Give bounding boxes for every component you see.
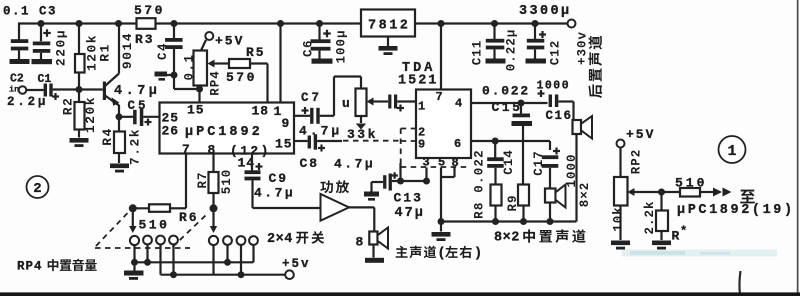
label 功放	[320, 180, 349, 193]
wire contact b2 down	[226, 245, 228, 262]
svg-text:+5V: +5V	[215, 34, 244, 49]
svg-text:2.2μ: 2.2μ	[7, 95, 48, 109]
transistor Q1 9014	[79, 88, 103, 90]
label C14	[502, 149, 516, 175]
label 0.1 C4 value	[183, 53, 197, 80]
label 100u	[335, 29, 349, 63]
wire contact b3 down	[240, 245, 242, 275]
node emitter	[116, 113, 123, 120]
dashed stub pin2	[401, 128, 416, 130]
label R7	[196, 171, 210, 188]
resistor R9	[522, 141, 524, 185]
wire top rail R3 to 7812	[156, 22, 362, 24]
svg-text:+5v: +5v	[282, 257, 311, 271]
wire contact b1 down	[212, 245, 214, 275]
svg-text:8×2: 8×2	[578, 182, 592, 208]
capacitor C13 47u	[370, 182, 372, 192]
svg-text:1: 1	[418, 100, 425, 114]
pin5 stub	[440, 168, 442, 222]
regulator U2 7812	[361, 10, 415, 37]
svg-text:18: 18	[252, 104, 270, 119]
wire C9 to amp input	[253, 207, 321, 209]
arrow to uPC1892 pin19	[713, 188, 722, 197]
svg-text:33k: 33k	[347, 127, 378, 142]
capacitor C6 100u	[318, 24, 320, 40]
node pin3	[423, 178, 430, 185]
capacitor C7 4.7u	[294, 115, 310, 117]
terminal +5v bottom	[285, 270, 294, 279]
node pin6-R8	[492, 138, 499, 145]
ground C4	[155, 72, 168, 77]
svg-text:9: 9	[418, 138, 425, 152]
capacitor C12 electrolytic	[534, 24, 536, 40]
label R9	[506, 194, 520, 211]
marker circled 2	[27, 176, 49, 198]
wire C13 to pin3	[401, 180, 427, 182]
svg-text:R7: R7	[196, 171, 210, 188]
svg-text:4.7μ: 4.7μ	[299, 124, 342, 139]
label C11	[471, 40, 485, 66]
svg-text:C2: C2	[10, 73, 24, 86]
label C4	[156, 42, 170, 60]
ground R2	[70, 138, 89, 143]
svg-text:0.1 C3: 0.1 C3	[3, 5, 57, 19]
wire bus A	[135, 261, 254, 263]
node a2 bus	[144, 259, 151, 266]
label RP2	[630, 149, 644, 175]
svg-text:8: 8	[356, 235, 364, 250]
svg-text:C11: C11	[471, 40, 485, 66]
svg-text:C7: C7	[301, 91, 322, 105]
node base	[76, 86, 83, 93]
op-amp U3 TDA1521 box	[416, 90, 471, 159]
capacitor C5 4.7u	[119, 116, 133, 118]
svg-text:C5: C5	[128, 99, 149, 113]
node R7 wiper	[210, 204, 218, 212]
svg-text:C13: C13	[394, 191, 423, 206]
wire pin7 down	[185, 154, 187, 209]
resistor R* 2.2k	[660, 192, 662, 211]
label 9014	[120, 32, 135, 69]
label 220u	[54, 29, 69, 66]
label C12	[549, 40, 563, 66]
svg-text:+5V: +5V	[626, 127, 655, 142]
node R6 wiper	[129, 204, 137, 212]
wire contact a2 down	[146, 244, 148, 262]
node rail-TDA-pin7	[438, 20, 445, 27]
label rear channel 后置声道	[588, 36, 602, 98]
ground switch a1	[133, 262, 135, 270]
svg-text:0.22μ: 0.22μ	[505, 29, 519, 72]
node RP2 wiper	[658, 189, 665, 196]
label 1000 C17 value	[565, 153, 579, 187]
wire bus B to +5v	[161, 274, 286, 276]
wiper RP4 arrow	[214, 62, 229, 64]
svg-text:1521: 1521	[398, 74, 438, 89]
node a4 busB	[170, 271, 177, 278]
capacitor C11 0.22u	[493, 24, 495, 40]
wire rail to TDA pin7	[440, 24, 442, 90]
switch contact a3	[156, 236, 165, 245]
capacitor C17 1000u	[549, 141, 551, 150]
switch contact b3	[237, 236, 246, 245]
label 主声道(左右)	[396, 246, 437, 259]
capacitor C3 220u electrolytic	[40, 24, 42, 42]
capacitor C15 0.022	[520, 103, 522, 114]
speaker main	[369, 232, 377, 245]
wire 510 to arrow	[700, 191, 713, 193]
label 至	[740, 190, 755, 204]
label 510 R7 value	[220, 169, 234, 195]
svg-text:2×4: 2×4	[267, 232, 293, 247]
resistor R5 570	[229, 59, 250, 68]
ground center rail	[440, 222, 442, 232]
svg-text:u: u	[342, 96, 350, 111]
label C17	[532, 150, 546, 176]
svg-text:(: (	[438, 247, 446, 262]
node rail-C11	[491, 20, 498, 27]
capacitor C9 4.7u	[251, 154, 253, 171]
svg-text:R6: R6	[179, 210, 199, 225]
svg-text:RP4: RP4	[208, 70, 222, 96]
svg-text:120k: 120k	[83, 96, 98, 133]
capacitor C4 0.1	[173, 24, 175, 39]
svg-text:570: 570	[134, 3, 165, 18]
ground C13	[364, 192, 379, 197]
svg-text:C8: C8	[300, 156, 320, 171]
svg-text:R3: R3	[135, 32, 155, 47]
svg-text:RP2: RP2	[630, 149, 644, 175]
node rail-C4	[171, 20, 178, 27]
svg-text:4.7μ: 4.7μ	[254, 186, 295, 201]
svg-text:9: 9	[282, 116, 290, 131]
wire amp out	[349, 206, 374, 208]
wire C5 to pin25	[143, 116, 159, 118]
label 8x2 speaker	[578, 182, 592, 208]
label R1	[98, 43, 113, 62]
wire contact a1 down	[133, 245, 135, 262]
ground R4	[110, 164, 129, 169]
dashed gang diagonal left	[96, 211, 130, 247]
label RP4	[208, 70, 222, 96]
svg-text:47μ: 47μ	[395, 206, 425, 221]
svg-text:C15: C15	[492, 100, 523, 115]
speaker rear channel	[573, 120, 582, 134]
svg-text:1: 1	[727, 143, 736, 160]
wire C4 node to pot node	[173, 75, 175, 89]
svg-text:C1: C1	[38, 73, 52, 86]
svg-text:R2: R2	[61, 97, 76, 116]
dashed gang diagonal right	[173, 216, 206, 248]
terminal +5V left	[205, 32, 213, 40]
potentiometer RP4	[198, 86, 200, 90]
switch wiper arrow right	[212, 193, 214, 226]
switch contact a4	[169, 236, 178, 245]
label 120k R2	[83, 96, 98, 133]
wire C4 to ground	[167, 74, 174, 76]
capacitor C10	[388, 95, 391, 109]
svg-text:4.7μ: 4.7μ	[334, 157, 375, 172]
label R8 0.022	[473, 149, 487, 219]
svg-text:7812: 7812	[368, 19, 410, 34]
node RP4 bottom	[196, 86, 203, 93]
wiper RP2 to node	[634, 191, 680, 193]
potentiometer u 33k	[356, 89, 367, 117]
terminal input	[19, 86, 27, 94]
node rail-C12	[532, 20, 539, 27]
dashed gang line horizontal	[343, 140, 401, 142]
node rail-R9	[520, 218, 527, 225]
svg-text:RP4: RP4	[17, 260, 43, 274]
wire top supply rail left segment	[18, 22, 137, 24]
wire input to C1	[26, 89, 43, 91]
capacitor C8 4.7u	[294, 140, 308, 142]
switch contact a1	[130, 236, 139, 245]
svg-text:R: R	[672, 229, 680, 244]
svg-text:C9: C9	[269, 171, 289, 186]
svg-text:R1: R1	[98, 43, 113, 62]
ground main speaker	[372, 245, 374, 258]
node C4-RP4	[171, 72, 178, 79]
switch contact a2	[143, 236, 152, 245]
svg-text:4.7μ: 4.7μ	[114, 84, 160, 99]
node rail-C6	[316, 20, 323, 27]
node a1 bus	[131, 259, 138, 266]
wire node to pin15	[198, 89, 200, 103]
node rail-spk	[547, 218, 554, 225]
node rail-R8	[492, 218, 499, 225]
wire C16 to rear speaker	[558, 100, 573, 102]
svg-text:2: 2	[33, 181, 41, 197]
svg-text:C17: C17	[532, 150, 546, 176]
wire junction up to dashed	[399, 163, 401, 181]
svg-text:9014: 9014	[120, 32, 135, 69]
dashed gang vertical	[400, 129, 402, 164]
pin3 stub	[425, 168, 427, 182]
stray vertical mark bottom right	[739, 271, 740, 295]
resistor R3 570 in rail	[137, 18, 156, 29]
svg-text:C14: C14	[502, 149, 516, 175]
wire contact a4 down	[172, 244, 174, 274]
bottom border line	[0, 292, 800, 296]
svg-text:2.2k: 2.2k	[643, 200, 657, 234]
switch contact b2	[223, 236, 232, 245]
wire R5 to pin18	[250, 62, 268, 64]
wire TDA pin4 to C16	[471, 102, 548, 104]
label R4	[100, 127, 115, 146]
terminal +30v	[568, 20, 576, 28]
svg-text:0.022: 0.022	[482, 84, 530, 99]
capacitor C1 2.2u input	[44, 84, 47, 97]
svg-text:15: 15	[275, 137, 293, 152]
wire contact b4 down	[252, 245, 254, 262]
label 7.2k	[128, 128, 143, 165]
dashed stub pin9	[401, 140, 416, 142]
svg-text:4: 4	[455, 97, 462, 111]
wire rear speaker return	[575, 133, 577, 222]
svg-text:R4: R4	[100, 127, 115, 146]
ground RP2	[611, 241, 630, 246]
wire C10 to TDA pin1	[397, 100, 416, 102]
svg-text:C6: C6	[302, 39, 316, 57]
ground 2.2k	[652, 241, 671, 246]
label 10k	[612, 206, 626, 232]
capacitor C14 0.022 and resistor R8	[494, 141, 496, 158]
svg-text:μPC1892: μPC1892	[185, 125, 263, 140]
wire center channel bottom rail	[441, 220, 577, 222]
switch contact b4	[249, 236, 258, 245]
node rail-collector	[115, 20, 122, 27]
switch wiper arrow left	[132, 208, 134, 226]
svg-text:): )	[474, 247, 482, 262]
switch contact b1	[209, 236, 218, 245]
capacitor C16 1000u	[538, 92, 545, 94]
svg-text:7.2k: 7.2k	[128, 128, 143, 165]
svg-text:R8 0.022: R8 0.022	[473, 149, 487, 219]
capacitor C2 0.1 top-left	[18, 24, 20, 40]
resistor 510 output	[680, 188, 700, 197]
IC U1 uPC1892 box	[160, 103, 295, 154]
speaker center channel	[545, 189, 556, 203]
svg-text:26: 26	[162, 124, 180, 139]
svg-text:220μ: 220μ	[54, 29, 69, 66]
resistor R7 510	[209, 172, 219, 193]
node rail-R1	[76, 20, 83, 27]
node C13-junction	[397, 178, 404, 185]
wire R6 left to wiper node	[133, 207, 149, 209]
smudge cyan bottom right	[622, 250, 777, 257]
node rail-pin5	[438, 218, 445, 225]
svg-text:3300μ: 3300μ	[519, 4, 572, 19]
wire C1 to base node	[53, 88, 79, 90]
svg-text:510: 510	[675, 176, 707, 191]
dashed line under TDA bottom pins	[401, 166, 470, 168]
svg-text:15: 15	[187, 103, 205, 118]
resistor R4 7.2k	[118, 117, 120, 132]
svg-text:100μ: 100μ	[335, 29, 349, 63]
dashed gang horizontal	[95, 247, 190, 249]
node rail-C3	[38, 20, 45, 27]
label 0.22u	[505, 29, 519, 72]
svg-text:C4: C4	[156, 42, 170, 60]
label C6	[302, 39, 316, 57]
resistor R2 120k	[78, 90, 80, 103]
svg-text:μPC1892(19): μPC1892(19)	[677, 203, 795, 218]
resistor R6 510	[149, 204, 170, 212]
wire pin8 down to R7	[212, 154, 214, 173]
svg-text:6: 6	[454, 137, 461, 151]
svg-text:C16: C16	[546, 109, 573, 123]
terminal +5V right	[617, 140, 625, 148]
svg-text:510: 510	[139, 218, 170, 233]
pin8 stub	[453, 168, 455, 178]
wire C7 up over to pot top	[320, 115, 334, 117]
potentiometer RP2 10k	[619, 148, 621, 178]
resistor R1 120k	[78, 24, 80, 55]
label 2.2k	[643, 200, 657, 234]
svg-text:*: *	[680, 225, 687, 239]
wire TDA pin6 right	[471, 140, 550, 142]
svg-text:8×2: 8×2	[494, 231, 520, 246]
op-amp power amp triangle	[321, 194, 350, 221]
right page border line	[797, 0, 799, 296]
pot bottom arrow	[360, 116, 362, 123]
svg-text:10k: 10k	[612, 206, 626, 232]
svg-text:+30v: +30v	[576, 31, 590, 65]
svg-text:in: in	[9, 85, 19, 95]
svg-text:7: 7	[436, 90, 443, 104]
svg-text:C12: C12	[549, 40, 563, 66]
svg-text:570: 570	[226, 70, 257, 85]
wire top rail 7812 to +30v terminal	[415, 22, 568, 24]
node rail-pin1	[277, 20, 284, 27]
label 120k R1	[85, 34, 100, 71]
wire C8 right	[317, 140, 342, 142]
marker circled 1	[719, 136, 746, 163]
ground 7812	[387, 37, 389, 47]
node C15	[518, 100, 525, 107]
node b2 bus	[224, 259, 231, 266]
svg-text:510: 510	[220, 169, 234, 195]
label +30v	[576, 31, 590, 65]
wire rail to pin1	[279, 24, 281, 103]
label R2	[61, 97, 76, 116]
wiper arrow u pot	[372, 100, 388, 102]
node b3 busB	[238, 271, 245, 278]
svg-text:R5: R5	[246, 45, 266, 60]
svg-text:1000: 1000	[537, 80, 571, 93]
wire contact a3 down	[159, 244, 161, 274]
svg-text:1: 1	[274, 104, 282, 119]
svg-text:R9: R9	[506, 194, 520, 211]
